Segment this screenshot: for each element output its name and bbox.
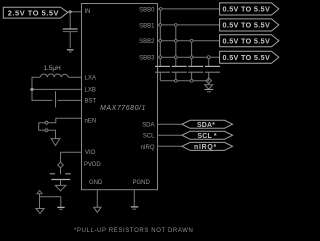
net flag SCL <box>182 131 233 140</box>
wire input cap branch <box>69 12 71 29</box>
svg-text:SCL: SCL <box>143 134 155 140</box>
junction LXB node <box>30 88 33 91</box>
svg-text:SBB3: SBB3 <box>139 56 155 62</box>
junction rail c2 <box>174 79 177 82</box>
wire nEN <box>48 118 82 122</box>
svg-text:0.5V TO 5.5V: 0.5V TO 5.5V <box>223 5 271 14</box>
ground switch <box>51 139 60 146</box>
capacitor COUT0 <box>155 66 170 80</box>
wire SBB2 <box>158 40 220 42</box>
svg-text:*PULL-UP RESISTORS NOT DRAWN: *PULL-UP RESISTORS NOT DRAWN <box>74 228 194 234</box>
wire SBB3 <box>158 56 220 58</box>
pin labels U1 <box>84 7 155 186</box>
svg-text:SDA: SDA <box>142 123 154 129</box>
ground GND pin <box>94 207 101 212</box>
wire EP rail right drop <box>60 197 62 207</box>
svg-text:SBB2: SBB2 <box>139 39 155 45</box>
svg-text:1.5µH: 1.5µH <box>44 65 62 72</box>
wire LXB node down to BST branch <box>32 91 52 100</box>
wire nIRQ <box>158 145 183 147</box>
svg-text:LXA: LXA <box>85 75 96 81</box>
capacitor COUT3 <box>205 66 220 80</box>
ground EP left <box>36 209 44 214</box>
svg-text:MAX77680/1: MAX77680/1 <box>100 105 146 112</box>
svg-text:0.5V TO 5.5V: 0.5V TO 5.5V <box>223 36 271 45</box>
ground VIO cap <box>55 185 66 190</box>
wire rail to ground <box>208 83 210 84</box>
svg-text:BST: BST <box>85 98 97 104</box>
net flag VOUT1 0.5V TO 5.5V <box>220 19 279 31</box>
capacitor COUT1 <box>172 66 187 80</box>
svg-text:LXB: LXB <box>85 87 96 93</box>
net flag VOUT3 0.5V TO 5.5V <box>220 51 279 63</box>
svg-text:nIRQ*: nIRQ* <box>194 144 217 151</box>
net flag nIRQ <box>182 142 233 151</box>
wire PGND pin to ground <box>133 190 135 206</box>
capacitor COUT2 <box>188 66 203 80</box>
net flag SDA <box>182 120 233 129</box>
svg-text:GND: GND <box>89 180 103 186</box>
wire switch to ground <box>48 130 56 138</box>
svg-text:PVDD: PVDD <box>84 162 101 168</box>
wire output cap ground rail <box>160 80 208 82</box>
junction input node <box>69 10 72 13</box>
wire SCL <box>158 134 183 136</box>
ground PGND pin <box>131 207 139 209</box>
svg-text:0.5V TO 5.5V: 0.5V TO 5.5V <box>223 21 271 30</box>
wire column SBB3 drop <box>208 57 210 66</box>
IC U1 MAX77680/1 <box>82 4 158 190</box>
capacitor CIN <box>63 29 78 48</box>
wire column SBB2 drop <box>191 41 193 67</box>
wire column SBB1 drop <box>175 25 177 67</box>
switch S1 pushbutton <box>39 121 48 131</box>
ground EP right <box>57 207 64 209</box>
wire inductor left lead <box>32 77 40 88</box>
wire VIO <box>61 152 82 162</box>
svg-text:nEN: nEN <box>85 118 97 124</box>
wire VIN to IN pin <box>68 11 82 13</box>
net flag VOUT2 0.5V TO 5.5V <box>220 35 279 47</box>
net label VIN flag 2.5V TO 5.5V <box>3 7 68 18</box>
svg-text:IN: IN <box>85 9 91 15</box>
inductor L1 1.5uH <box>40 65 68 78</box>
capacitor CBST <box>55 91 57 107</box>
ground output rail <box>205 85 214 92</box>
svg-text:SDA*: SDA* <box>197 122 215 129</box>
wire LXB <box>34 88 82 90</box>
wire EP rail <box>40 194 61 197</box>
svg-text:SBB0: SBB0 <box>139 7 155 13</box>
svg-text:2.5V TO 5.5V: 2.5V TO 5.5V <box>8 8 59 17</box>
svg-text:nIRQ: nIRQ <box>140 145 154 151</box>
capacitor CVIO <box>50 168 71 186</box>
wire SBB1 <box>158 24 220 26</box>
wire BST pin <box>58 99 82 101</box>
svg-text:0.5V TO 5.5V: 0.5V TO 5.5V <box>223 53 271 62</box>
svg-text:VIO: VIO <box>85 150 96 156</box>
svg-text:SCL *: SCL * <box>198 133 217 140</box>
wire SBB0 <box>158 8 220 10</box>
node test point diamond VIO <box>58 162 64 168</box>
wire SDA <box>158 123 183 125</box>
junction hops row/column <box>159 8 210 59</box>
net flag VOUT0 0.5V TO 5.5V <box>220 3 279 15</box>
node EP arrow <box>37 190 42 193</box>
svg-text:PGND: PGND <box>133 180 151 186</box>
node diamond rail <box>206 78 212 83</box>
wire GND pin to ground <box>96 190 98 207</box>
wire column SBB0 drop <box>159 9 161 67</box>
ground input cap <box>67 50 73 52</box>
wire EP rail left drop <box>39 197 41 209</box>
junction rail c3 <box>190 79 193 82</box>
wire LXA <box>68 76 81 78</box>
svg-text:SBB1: SBB1 <box>139 23 155 29</box>
